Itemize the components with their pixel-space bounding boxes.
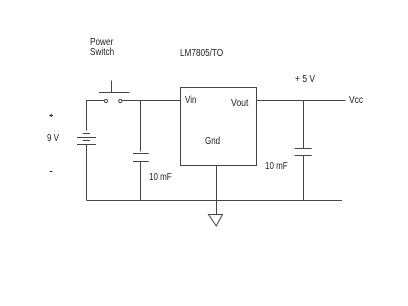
wire right capacitor top lead: [303, 101, 305, 149]
wire battery top to switch: [86, 100, 104, 102]
wire Vout to Vcc: [257, 100, 346, 102]
switch S1: [99, 81, 130, 103]
battery minus polarity label: [50, 171, 53, 173]
label LM7805/TO: [180, 49, 223, 59]
wire left capacitor top lead: [140, 101, 142, 152]
capacitor C1 10mF: [133, 154, 149, 162]
label + 5 V: [295, 75, 315, 85]
regulator U1 LM7805 body: [181, 88, 257, 166]
battery B1 9V: [77, 134, 96, 145]
wire switch to Vin: [122, 100, 181, 102]
battery plus polarity label: [49, 114, 53, 117]
capacitor C2 10mF: [295, 149, 312, 156]
ground symbol: [209, 215, 223, 226]
wire Gnd pin to ground: [216, 166, 218, 215]
wire bottom ground rail: [87, 200, 343, 202]
pin label Gnd: [205, 137, 220, 147]
wire battery negative lead: [86, 145, 88, 201]
wire right capacitor bottom lead: [303, 156, 305, 201]
wire battery positive lead: [86, 101, 88, 131]
value label 10 mF (left capacitor): [149, 173, 172, 183]
value label 10 mF (right capacitor): [265, 162, 288, 172]
net label Vcc: [349, 96, 363, 106]
pin label Vout: [231, 99, 248, 109]
pin label Vin: [185, 96, 196, 106]
value label 9 V: [47, 134, 59, 144]
wire left capacitor bottom lead: [140, 162, 142, 201]
label Power Switch: [90, 38, 114, 58]
